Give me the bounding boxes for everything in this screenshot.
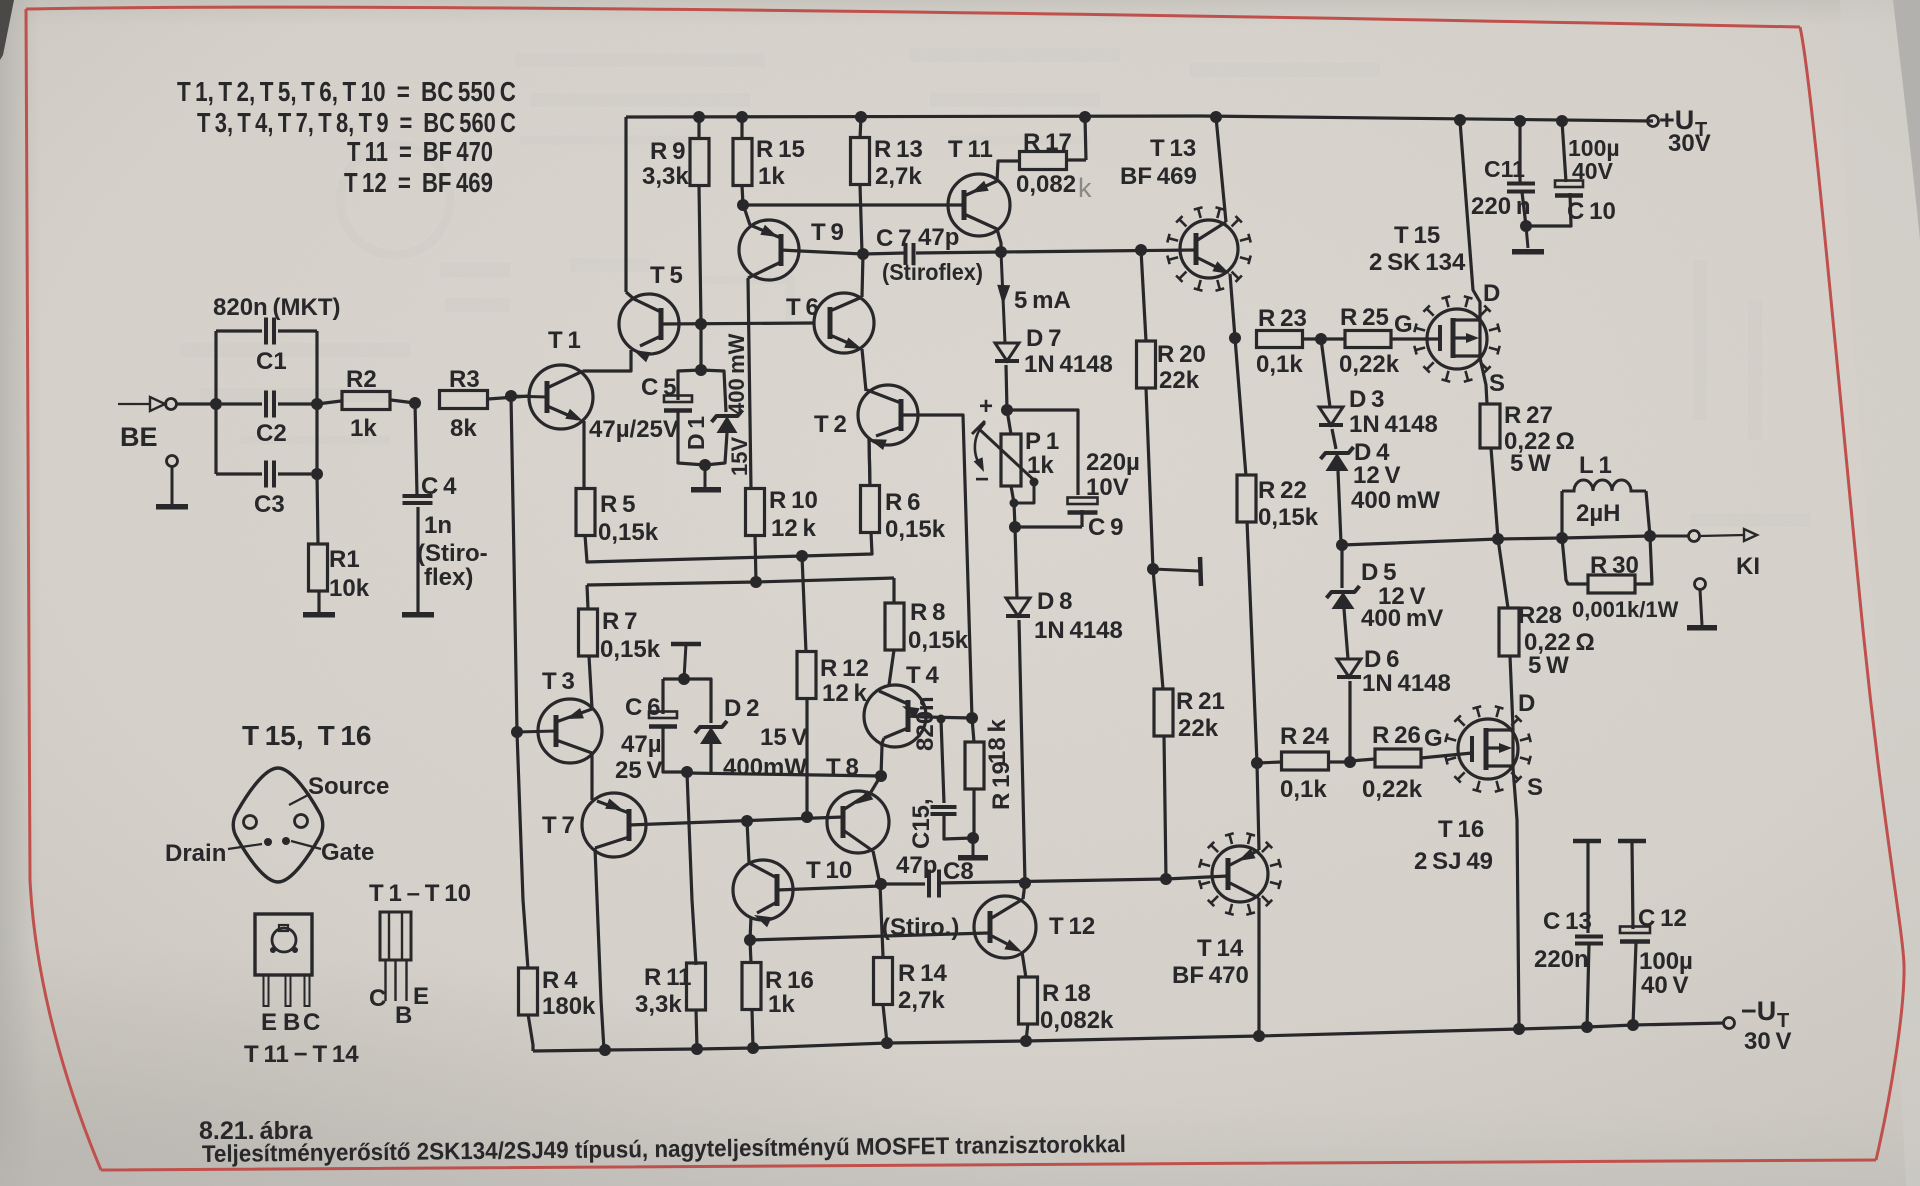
capacitor C15 820n [941, 719, 944, 803]
adjust arrow P1 [975, 423, 985, 468]
svg-text:R 18: R 18 [1042, 980, 1091, 1007]
node R15 T9 emitter [737, 199, 749, 211]
svg-text:8k: 8k [450, 415, 477, 442]
svg-text:T 4: T 4 [906, 662, 939, 689]
terminal -UT 30V [1724, 1018, 1735, 1029]
resistor R9 3,3k [697, 117, 700, 139]
wire C-block left [214, 331, 217, 474]
node bus R18 [1020, 1035, 1032, 1047]
svg-text:C 9: C 9 [1088, 514, 1123, 541]
svg-text:15V: 15V [727, 437, 752, 476]
current arrow 5mA [1001, 252, 1005, 343]
node bus C13 [1581, 1021, 1593, 1033]
svg-text:D 1: D 1 [683, 416, 709, 450]
svg-text:0,1k: 0,1k [1256, 351, 1303, 378]
output rail stub near C6 [671, 642, 701, 647]
wire T15 source to R27 [1480, 358, 1487, 404]
resistor R7 0,15k [579, 609, 598, 656]
svg-text:0,22k: 0,22k [1362, 776, 1423, 803]
node R24 left [1251, 757, 1263, 769]
svg-text:R 22: R 22 [1258, 477, 1307, 504]
svg-text:R 20: R 20 [1157, 341, 1206, 368]
wire T13 emitter down [1230, 274, 1235, 338]
node T5 base / R9 [695, 318, 707, 330]
svg-text:S: S [1527, 774, 1543, 801]
svg-text:C1: C1 [256, 348, 287, 375]
svg-text:Drain: Drain [165, 840, 226, 867]
wire T5 base to T6 base [661, 323, 814, 324]
wire R21 node to T14 base [1166, 876, 1228, 879]
node R2-R3 [409, 397, 421, 409]
resistor R22 0,15k [1235, 338, 1246, 476]
transistor T11 [948, 174, 1010, 236]
capacitor C2 [222, 402, 262, 405]
wire T2 emitter to R6 [869, 439, 870, 486]
svg-text:B: B [395, 1002, 412, 1029]
node L1 right [1644, 530, 1656, 542]
node T1 base [505, 390, 517, 402]
svg-text:C11: C11 [1484, 156, 1525, 182]
svg-text:−U: −U [1741, 996, 1776, 1026]
wire T4 emitter right [925, 717, 972, 718]
node T12 collector [1019, 877, 1031, 889]
node T10 collector top [741, 815, 753, 827]
svg-text:C 4: C 4 [421, 473, 457, 500]
svg-text:KI: KI [1736, 553, 1760, 580]
wire T7 base to T8 base [629, 817, 843, 825]
node L1 left [1556, 532, 1568, 544]
node bus T15 drain [1454, 114, 1466, 126]
wire input to node [177, 402, 217, 405]
capacitor C6 47u/25V [663, 677, 684, 680]
node D4-D5 output [1336, 539, 1348, 551]
wire down to R11 [687, 773, 696, 965]
transistor T8 [827, 791, 889, 853]
resistor R21 22k [1154, 689, 1173, 736]
svg-text:(Stiro-: (Stiro- [417, 540, 488, 567]
node T13 emitter R23 [1229, 332, 1241, 344]
node C8 left [875, 878, 887, 890]
svg-text:47µ: 47µ [621, 731, 662, 758]
svg-text:T 1 – T 10: T 1 – T 10 [369, 880, 471, 907]
wire T8 collector to R14 [880, 884, 883, 956]
svg-text:22k: 22k [1178, 715, 1219, 742]
svg-text:T 1: T 1 [548, 327, 581, 354]
diode D5 12V 400mV zener [1340, 545, 1343, 588]
bottom supply bus -UT [533, 1023, 1724, 1051]
wire T11 collector down [997, 229, 1001, 252]
node output R27-R28 [1492, 533, 1504, 545]
diode D3 1N4148 [1321, 339, 1330, 407]
svg-text:R 27: R 27 [1504, 402, 1553, 429]
resistor R13 2,7k [860, 117, 861, 139]
node bus R9 [693, 111, 705, 123]
output ground [1695, 579, 1706, 590]
svg-text:820n (MKT): 820n (MKT) [213, 294, 340, 321]
resistor R1 10k [317, 474, 318, 544]
svg-text:0,15k: 0,15k [1258, 504, 1319, 531]
node C11 ground [1520, 220, 1532, 232]
svg-text:0,22k: 0,22k [1339, 351, 1400, 378]
capacitor C8 47p [880, 882, 925, 885]
node bus T7 [599, 1044, 611, 1056]
svg-text:BF 469: BF 469 [1120, 163, 1197, 190]
capacitor C13 220n [1586, 843, 1589, 933]
svg-text:220µ: 220µ [1086, 449, 1140, 476]
svg-text:5 W: 5 W [1510, 450, 1551, 477]
wire T10 emitter to T12 base [750, 933, 988, 940]
resistor R10 12k [746, 489, 765, 536]
output terminal KI [1655, 535, 1689, 538]
svg-text:R 10: R 10 [769, 487, 818, 514]
svg-text:1N 4148: 1N 4148 [1349, 411, 1438, 438]
svg-text:E: E [413, 983, 429, 1010]
node C5-D1 top [695, 364, 707, 376]
svg-text:+: + [979, 393, 993, 420]
svg-text:R1: R1 [329, 546, 360, 573]
svg-text:T 13: T 13 [1150, 135, 1196, 162]
resistor R3 8k [440, 391, 488, 409]
resistor R18 0,082k [1019, 977, 1038, 1024]
node R20 top [1135, 244, 1147, 256]
resistor R20 22k [1141, 250, 1146, 341]
svg-text:C 13: C 13 [1543, 908, 1592, 935]
svg-text:0,001k/1W: 0,001k/1W [1572, 597, 1679, 622]
node bus R14 [881, 1037, 893, 1049]
svg-text:0,15k: 0,15k [600, 636, 661, 663]
node bus R11 [691, 1043, 703, 1055]
resistor R30 0,001k/1W [1562, 538, 1588, 584]
svg-text:P 1: P 1 [1025, 428, 1059, 455]
wire T4 collector [881, 746, 882, 776]
svg-text:3,3k: 3,3k [642, 163, 689, 190]
resistor R19 18k [972, 718, 974, 742]
node R12 bottom [801, 811, 813, 823]
svg-text:T 9: T 9 [811, 219, 844, 246]
svg-text:C3: C3 [254, 491, 285, 518]
svg-text:T 6: T 6 [786, 294, 819, 321]
node C5-D1 bottom [699, 459, 711, 471]
resistor R11 3,3k [687, 963, 706, 1010]
wire to C9 top [1007, 410, 1078, 495]
wire T1 base to T3 base [511, 396, 517, 732]
svg-text:10k: 10k [329, 575, 370, 602]
ground C4 [402, 612, 434, 618]
caption text [202, 1131, 1126, 1168]
svg-text:R 14: R 14 [898, 960, 947, 987]
capacitor C3 [216, 472, 262, 475]
capacitor C5 47u/25V [678, 370, 701, 400]
svg-text:180k: 180k [542, 993, 596, 1020]
node T9 base / R13 / T6 collector [857, 248, 869, 260]
node bus R17 [1079, 111, 1091, 123]
node P1 wiper join [1010, 499, 1019, 508]
wire T11 emitter to R17 [997, 161, 1020, 181]
svg-text:T 14: T 14 [1197, 935, 1244, 962]
wire T1 emitter to R5 [582, 421, 585, 489]
svg-text:1n: 1n [424, 512, 452, 539]
wire output rail [1342, 536, 1650, 545]
resistor R5 0,15k [576, 489, 595, 536]
node R19 top [966, 712, 978, 724]
node R23-R25 D3 [1315, 333, 1327, 345]
svg-text:220n: 220n [1534, 946, 1589, 973]
resistor R27 0,22 ohm 5W [1480, 404, 1500, 448]
svg-text:0,15k: 0,15k [598, 519, 659, 546]
svg-text:R 23: R 23 [1258, 305, 1307, 332]
svg-text:R 7: R 7 [602, 608, 637, 635]
svg-text:12 k: 12 k [771, 515, 817, 542]
svg-text:T 5: T 5 [650, 262, 683, 289]
page frame [26, 7, 1800, 27]
wire T9 collector to R10 [748, 278, 751, 489]
resistor R23 0,1k [1257, 331, 1303, 348]
svg-text:R 24: R 24 [1280, 723, 1329, 750]
wire T9 emitter up [743, 205, 750, 225]
svg-text:T 11 = BF 470: T 11 = BF 470 [347, 136, 493, 167]
wire T12 collector [1023, 883, 1025, 899]
input ground stub [167, 456, 178, 467]
resistor R15 1k [740, 117, 743, 139]
wire T3 collector to T7 [590, 753, 593, 800]
svg-text:Source: Source [308, 773, 389, 800]
svg-text:R 26: R 26 [1372, 722, 1421, 749]
wire R20 to R21 [1146, 388, 1163, 689]
svg-text:C 7: C 7 [876, 225, 911, 252]
svg-text:R28: R28 [1518, 602, 1562, 629]
resistor R8 0,15k [885, 603, 904, 650]
transistor T4 [864, 685, 926, 747]
ground R1 [303, 612, 335, 618]
svg-text:12 V: 12 V [1353, 462, 1401, 489]
wire T12 emitter [1022, 952, 1026, 978]
svg-text:C: C [369, 985, 386, 1012]
svg-text:B: B [283, 1009, 300, 1036]
resistor R14 2,7k [874, 958, 893, 1005]
svg-text:1k: 1k [350, 415, 377, 442]
capacitor C12 100u 40V [1632, 843, 1633, 929]
svg-text:G: G [1394, 311, 1413, 338]
svg-text:0,082: 0,082 [1016, 171, 1076, 198]
svg-text:L 1: L 1 [1579, 452, 1612, 479]
legend T11-T14 package [255, 914, 312, 975]
output rail stub C13 [1573, 839, 1601, 844]
svg-text:T 10: T 10 [806, 857, 852, 884]
transistor T12 [974, 896, 1036, 958]
transistor T10 [733, 860, 793, 920]
svg-text:T 12: T 12 [1049, 913, 1095, 940]
wire C-block right [315, 331, 318, 474]
svg-text:220 n: 220 n [1471, 193, 1531, 220]
svg-text:R 21: R 21 [1176, 688, 1225, 715]
svg-text:1k: 1k [1027, 452, 1054, 479]
diode D7 1N4148 [995, 343, 1019, 361]
transistor T3 [538, 699, 602, 763]
wire R7 top [587, 585, 588, 609]
svg-text:G: G [1424, 725, 1443, 752]
svg-text:2,7k: 2,7k [875, 163, 922, 190]
svg-text:R 9: R 9 [650, 138, 685, 165]
node D6 R24 R26 [1344, 756, 1356, 768]
svg-text:2 SJ 49: 2 SJ 49 [1414, 848, 1493, 875]
capacitor C4 1n [415, 403, 417, 495]
node R16 top [744, 934, 756, 946]
wire T10 emitter down [750, 917, 751, 940]
node bus C10 [1556, 115, 1568, 127]
node bus T13 [1210, 111, 1222, 123]
wire T5 base node down [699, 324, 702, 370]
svg-text:D 3: D 3 [1349, 386, 1384, 413]
svg-text:C2: C2 [256, 420, 287, 447]
svg-text:T 12 = BF 469: T 12 = BF 469 [344, 167, 493, 198]
node bus C12 [1627, 1019, 1639, 1031]
node input [210, 398, 222, 410]
node bus R15 [736, 111, 748, 123]
ground R19 [972, 838, 975, 855]
svg-text:D 2: D 2 [724, 695, 759, 722]
svg-text:T 7: T 7 [542, 812, 575, 839]
svg-text:30 V: 30 V [1744, 1028, 1792, 1055]
node C9 bottom [1009, 521, 1021, 533]
svg-text:S: S [1489, 370, 1505, 397]
wire R7-R8 rail [587, 578, 894, 585]
wire T8 collector down [873, 851, 880, 884]
node P1 top [1001, 404, 1013, 416]
output rail stub near R21 [1153, 569, 1199, 571]
svg-text:C 10: C 10 [1567, 198, 1616, 225]
node bus C11 [1514, 115, 1526, 127]
svg-text:40 V: 40 V [1641, 972, 1689, 999]
output rail stub C12 [1618, 839, 1646, 844]
svg-text:400 mW: 400 mW [724, 333, 749, 415]
wire T8 emitter up [871, 777, 880, 792]
svg-text:T 11 − T 14: T 11 − T 14 [244, 1041, 359, 1068]
svg-text:E: E [261, 1009, 277, 1036]
wire T15 drain to bus [1460, 121, 1480, 318]
svg-text:flex): flex) [424, 564, 473, 591]
svg-text:Gate: Gate [321, 839, 374, 866]
wire T6 collector up [862, 254, 863, 297]
node bus R13 [855, 111, 867, 123]
svg-text:400mW: 400mW [723, 754, 807, 781]
svg-text:47p: 47p [896, 852, 937, 879]
svg-text:R3: R3 [449, 366, 480, 393]
svg-text:k: k [1078, 173, 1092, 203]
svg-text:0,15k: 0,15k [885, 516, 946, 543]
wire R15 to T11 base [743, 203, 964, 206]
resistor R6 0,15k [861, 486, 880, 533]
svg-text:R 19: R 19 [988, 761, 1015, 810]
svg-text:47µ/25V: 47µ/25V [589, 416, 679, 443]
resistor R2 1k [317, 401, 341, 404]
transistor T1 [529, 365, 593, 429]
svg-text:30V: 30V [1668, 130, 1711, 157]
svg-text:3,3k: 3,3k [635, 991, 682, 1018]
terminal +UT 30V [1648, 116, 1659, 127]
svg-text:D 5: D 5 [1361, 559, 1396, 586]
svg-text:T 11: T 11 [948, 136, 993, 163]
transistor T7 [582, 793, 646, 857]
svg-text:1N 4148: 1N 4148 [1034, 617, 1123, 644]
capacitor C11 220n [1518, 121, 1521, 182]
node T11 collector [995, 246, 1007, 258]
node bus R16 [747, 1042, 759, 1054]
svg-text:1k: 1k [768, 991, 795, 1018]
svg-text:(Stiro.): (Stiro.) [882, 914, 959, 941]
svg-text:BF 470: BF 470 [1172, 962, 1249, 989]
svg-text:47p: 47p [918, 224, 959, 251]
svg-text:0,15k: 0,15k [908, 627, 969, 654]
node C6-D2 top [678, 673, 690, 685]
svg-text:T 15: T 15 [1394, 222, 1440, 249]
svg-text:C8: C8 [943, 858, 974, 885]
svg-text:R 15: R 15 [756, 136, 805, 163]
resistor R25 0,22k [1321, 337, 1345, 340]
svg-text:C 12: C 12 [1638, 905, 1687, 932]
diode D2 15V 400mW zener [684, 679, 711, 723]
svg-text:(Stiroflex): (Stiroflex) [882, 259, 983, 285]
node C8 right / R21 [1160, 873, 1172, 885]
svg-text:10V: 10V [1086, 474, 1129, 501]
wire T13 collector to bus [1216, 117, 1226, 222]
svg-text:12 k: 12 k [822, 680, 868, 707]
diode D8 1N4148 [1015, 527, 1017, 598]
resistor R28 0,22 ohm 5W [1498, 539, 1508, 608]
ground C11-C10 [1526, 226, 1528, 248]
wire T1 collector to T5 emitter [583, 350, 631, 371]
mosfet T16 2SJ49 [1458, 719, 1518, 779]
svg-text:0,1k: 0,1k [1280, 776, 1327, 803]
wire T6 emitter to T2 [862, 349, 866, 391]
wire R8 top [892, 578, 895, 602]
wire R7 to T3 emitter [589, 656, 592, 708]
svg-text:1N 4148: 1N 4148 [1024, 351, 1113, 378]
wire T5 collector to top bus [626, 292, 634, 299]
transistor T6 [814, 293, 874, 353]
node R19 bottom [967, 832, 979, 844]
svg-text:22k: 22k [1159, 367, 1200, 394]
wire T14 collector to bus [1257, 898, 1260, 1036]
svg-text:15 V: 15 V [760, 724, 808, 751]
wire R10 to R7-R8 rail [755, 535, 756, 582]
ground C5-D1 [704, 465, 707, 487]
svg-text:R 4: R 4 [542, 967, 578, 994]
svg-text:R 30: R 30 [1590, 552, 1639, 579]
node R10 rail [750, 576, 762, 588]
node rail stub [1147, 563, 1159, 575]
node C3 right [311, 468, 323, 480]
resistor R4 180k [519, 968, 538, 1015]
resistor R12 12k [802, 556, 806, 652]
svg-text:0,082k: 0,082k [1040, 1007, 1114, 1034]
inductor L1 2uH [1560, 491, 1563, 538]
node T3 base [511, 726, 523, 738]
capacitor C1 [216, 329, 262, 332]
svg-text:40V: 40V [1572, 158, 1614, 184]
wire P1 [1007, 410, 1011, 434]
wire R5 to rail [585, 535, 802, 562]
transistor T5 [619, 294, 679, 354]
svg-text:T 15, T 16: T 15, T 16 [242, 720, 372, 751]
svg-text:2,7k: 2,7k [898, 987, 945, 1014]
svg-text:400 mW: 400 mW [1351, 487, 1440, 514]
svg-text:25 V: 25 V [615, 757, 663, 784]
wire C6-D2 bottom to T4/T8 node [687, 773, 881, 776]
input terminal BE [118, 403, 150, 405]
wire base rail T11-T13 [1001, 250, 1196, 252]
resistor R24 0,1k [1257, 762, 1281, 763]
node C2 right [311, 398, 323, 410]
